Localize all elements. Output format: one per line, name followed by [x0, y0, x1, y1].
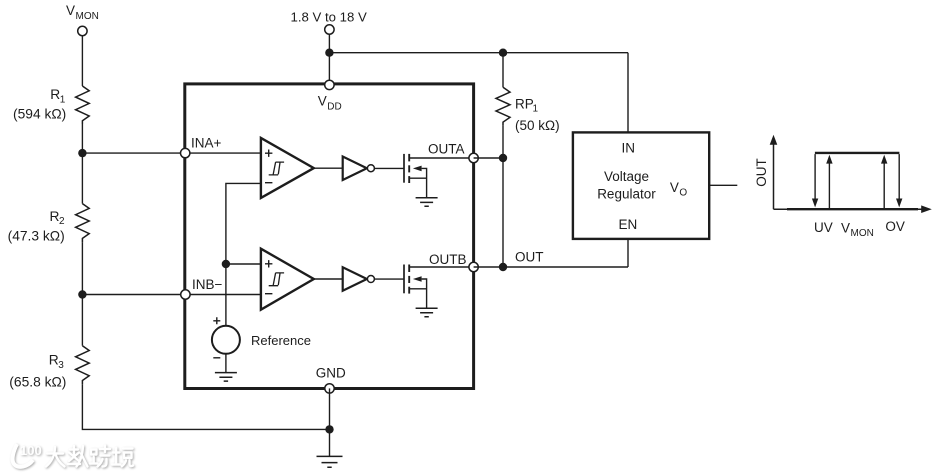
- voltage source Reference: [212, 326, 240, 354]
- svg-text:2: 2: [59, 216, 65, 227]
- transistor Q2: [404, 265, 469, 309]
- wire R3 down and right to ground junction: [82, 384, 329, 429]
- svg-text:INB−: INB−: [192, 277, 223, 292]
- pin VDD label: [318, 94, 342, 113]
- svg-text:OUT: OUT: [754, 158, 769, 187]
- watermark logo: [13, 443, 42, 467]
- svg-text:(65.8 kΩ): (65.8 kΩ): [9, 374, 66, 389]
- svg-text:V: V: [670, 180, 679, 195]
- svg-text:INA+: INA+: [191, 136, 222, 151]
- svg-text:(50 kΩ): (50 kΩ): [515, 118, 560, 133]
- svg-text:OUTA: OUTA: [428, 141, 465, 156]
- comparator U1B: [261, 249, 314, 310]
- resistor R1 ref label: [50, 87, 66, 105]
- wire supply to VDD: [328, 34, 330, 85]
- junction R2 R3: [78, 290, 86, 298]
- svg-text:1: 1: [533, 104, 539, 115]
- svg-text:R: R: [49, 353, 59, 368]
- wire R2 to R3: [81, 242, 83, 345]
- transistor Q1: [404, 154, 469, 198]
- resistor R1: [76, 86, 90, 124]
- svg-text:R: R: [50, 87, 60, 102]
- svg-text:MON: MON: [851, 228, 874, 239]
- graph baseline low segment: [787, 208, 918, 210]
- pin GND terminal: [325, 384, 334, 393]
- comparator U1A: [261, 138, 314, 198]
- pin VDD terminal: [325, 80, 334, 89]
- junction supply: [325, 49, 333, 57]
- wire EN to OUT: [627, 239, 629, 267]
- ground main: [317, 456, 343, 467]
- svg-text:(594 kΩ): (594 kΩ): [13, 106, 66, 121]
- svg-text:O: O: [679, 188, 687, 199]
- wire rail down to IN: [627, 53, 629, 133]
- resistor R3 ref label: [49, 353, 65, 371]
- comparator B plus sign: [265, 260, 272, 267]
- wire buffer B to gate Q2: [374, 278, 404, 280]
- graph axis X: [774, 205, 932, 213]
- terminal VMON: [78, 26, 87, 35]
- svg-text:100: 100: [20, 443, 42, 458]
- wire node to INA+: [82, 152, 260, 154]
- svg-text:Voltage: Voltage: [604, 169, 649, 184]
- pin OUTB terminal: [469, 262, 478, 271]
- pin OUTA terminal: [469, 153, 478, 162]
- wire VMON to R1: [81, 36, 83, 86]
- wire comparator A minus feed: [226, 183, 261, 326]
- graph output high segment: [815, 152, 900, 154]
- svg-text:DD: DD: [327, 101, 341, 112]
- wire VO output stub: [709, 184, 737, 186]
- svg-text:GND: GND: [316, 365, 346, 380]
- resistor RP1: [496, 53, 510, 267]
- regulator name label: [597, 169, 656, 201]
- pin INB- terminal: [181, 290, 190, 299]
- svg-text:Regulator: Regulator: [597, 186, 656, 201]
- svg-text:V: V: [66, 3, 75, 18]
- junction OUTA RP1: [499, 154, 507, 162]
- svg-text:1.8 V to 18 V: 1.8 V to 18 V: [291, 9, 367, 24]
- svg-text:V: V: [318, 94, 327, 109]
- buffer B output bubble: [367, 276, 374, 283]
- watermark text: [46, 446, 133, 467]
- wire reference to ground: [225, 354, 227, 373]
- regulator box U3: [573, 132, 709, 239]
- pin VO label: [670, 180, 688, 199]
- terminal 1.8V supply: [325, 25, 334, 34]
- comparator B minus sign: [265, 293, 272, 295]
- svg-text:OV: OV: [885, 219, 905, 234]
- wire node to INB-: [82, 294, 260, 296]
- wire reference to comparator B plus: [226, 263, 261, 265]
- svg-text:UV: UV: [814, 220, 833, 235]
- ground Q1 source: [416, 198, 438, 207]
- graph rising edge arrow at UV: [826, 155, 832, 208]
- pin INA+ terminal: [181, 148, 190, 157]
- reference plus sign: [213, 317, 220, 324]
- resistor R2 ref label: [50, 209, 66, 227]
- wire buffer A to gate Q1: [374, 167, 404, 169]
- node VMON label: [66, 3, 99, 22]
- wire OUTA to RP1: [474, 157, 503, 159]
- svg-text:(47.3 kΩ): (47.3 kΩ): [8, 229, 65, 244]
- resistor RP1 ref label: [515, 96, 539, 114]
- svg-text:V: V: [841, 221, 850, 236]
- svg-text:MON: MON: [76, 11, 99, 22]
- comparator A minus sign: [265, 182, 272, 184]
- svg-text:Reference: Reference: [251, 333, 311, 348]
- buffer U2B: [343, 267, 367, 291]
- comparator A plus sign: [265, 150, 272, 157]
- buffer U2A: [343, 157, 367, 181]
- graph VMON label: [841, 221, 874, 240]
- wire supply rail top: [329, 52, 628, 54]
- graph axis Y: [770, 135, 778, 209]
- svg-text:1: 1: [60, 94, 66, 105]
- IC main box U1: [185, 84, 474, 389]
- junction R1 R2: [78, 149, 86, 157]
- svg-text:IN: IN: [622, 141, 636, 156]
- comparator A hysteresis symbol: [269, 162, 284, 175]
- svg-text:RP: RP: [515, 96, 534, 111]
- svg-text:R: R: [50, 209, 60, 224]
- graph falling edge arrow at OV: [896, 154, 902, 207]
- svg-text:OUT: OUT: [515, 250, 544, 265]
- ground reference: [215, 373, 237, 382]
- comparator B hysteresis symbol: [269, 273, 284, 286]
- wire OUTB to EN: [474, 266, 628, 268]
- wire GND to ground: [329, 388, 331, 456]
- reference minus sign: [213, 357, 220, 359]
- svg-text:EN: EN: [619, 217, 638, 232]
- buffer A output bubble: [367, 165, 374, 172]
- wire comparator B to buffer B: [314, 278, 343, 280]
- svg-text:3: 3: [58, 360, 64, 371]
- wire comparator A to buffer A: [314, 167, 343, 169]
- graph rising edge arrow at OV: [881, 155, 887, 208]
- resistor R3: [76, 346, 90, 385]
- junction ground: [325, 425, 333, 433]
- ground Q2 source: [416, 308, 438, 317]
- junction reference node: [222, 260, 230, 268]
- junction OUT: [499, 263, 507, 271]
- junction rail RP1: [499, 49, 507, 57]
- graph falling edge arrow at UV: [812, 154, 818, 207]
- wire R1 to R2: [81, 124, 83, 204]
- resistor R2: [76, 204, 90, 243]
- svg-text:OUTB: OUTB: [429, 252, 467, 267]
